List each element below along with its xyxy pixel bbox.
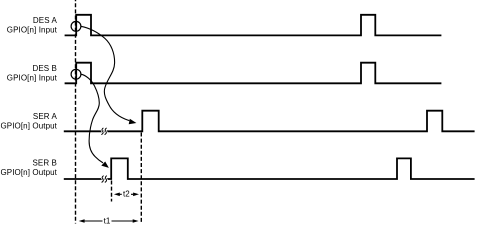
svg-text:GPIO[n] Input: GPIO[n] Input — [7, 74, 58, 83]
arrowhead at SER B — [101, 162, 109, 168]
curved arrow DES B to SER B — [81, 74, 103, 163]
svg-text:SER B: SER B — [32, 159, 57, 168]
waveform SER A (row 3) with two pulses — [64, 111, 475, 132]
svg-text:SER A: SER A — [33, 112, 58, 121]
dimension t2 between V2 and V3 — [114, 193, 139, 197]
arrowhead at SER A — [129, 119, 137, 125]
dimension t1 between V1 and V3 — [79, 219, 139, 223]
svg-text:GPIO[n] Output: GPIO[n] Output — [0, 168, 57, 177]
dashed reference line V2 (at SER B rising edge) — [111, 181, 113, 202]
waveform DES A (row 1) with two pulses — [65, 15, 442, 36]
waveform DES B (row 2) with two pulses — [65, 63, 442, 84]
waveform SER B (row 4) with two pulses — [64, 158, 475, 179]
svg-text:GPIO[n] Input: GPIO[n] Input — [7, 26, 58, 35]
svg-text:GPIO[n] Output: GPIO[n] Output — [0, 122, 57, 131]
break squiggle on SER A baseline — [101, 128, 106, 135]
break squiggle on SER B baseline — [102, 176, 107, 183]
dashed reference line V3 (at SER A rising edge) — [140, 133, 142, 223]
circle marker on DES A rising edge — [71, 21, 81, 31]
circle marker on DES B rising edge — [71, 69, 81, 79]
svg-text:DES B: DES B — [32, 64, 57, 73]
curved arrow DES A to SER A — [81, 26, 129, 120]
svg-text:t2: t2 — [123, 190, 130, 199]
svg-text:t1: t1 — [104, 217, 111, 226]
svg-text:DES A: DES A — [33, 16, 58, 25]
dashed reference line V1 (at DES rising edge) — [75, 0, 77, 224]
